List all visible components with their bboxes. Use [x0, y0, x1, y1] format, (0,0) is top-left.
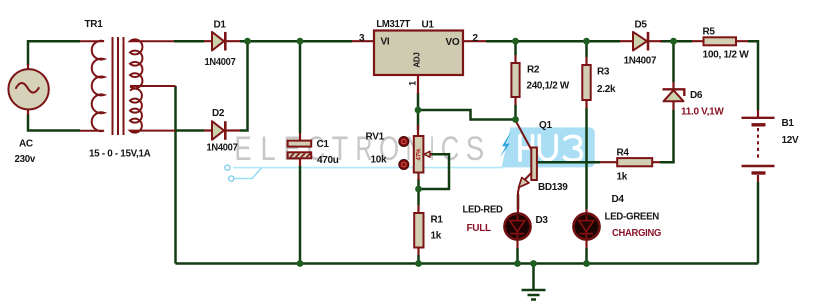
svg-text:D5: D5: [635, 20, 648, 31]
svg-text:LED-GREEN: LED-GREEN: [605, 212, 660, 223]
wire R5 to battery positive: [748, 41, 758, 110]
svg-text:R2: R2: [527, 65, 540, 76]
bottom rail wire: [176, 262, 759, 265]
svg-text:L: L: [260, 130, 275, 168]
wire LM317 ADJ to RV1: [417, 93, 420, 130]
base bar: [531, 148, 537, 181]
capacitor C1: [288, 133, 339, 166]
svg-text:FULL: FULL: [467, 223, 492, 234]
adjust button down: [399, 160, 409, 170]
wire D2 cathode up to top rail junction: [240, 41, 248, 130]
junction RV1 wiper bottom: [415, 186, 422, 193]
emitter arrow: [519, 178, 529, 188]
secondary upper winding: [130, 39, 174, 88]
wire TR1 secondary bottom to D2 anode: [176, 129, 205, 132]
svg-text:2: 2: [473, 33, 479, 44]
resistor R3: [582, 57, 616, 108]
junction R2 bottom Q1 collector: [512, 116, 519, 123]
junction ADJ node: [415, 107, 422, 114]
wire D5 cathode to R5: [660, 40, 692, 43]
wire TR1 secondary top to D1 anode: [174, 40, 204, 43]
svg-text:240,1/2 W: 240,1/2 W: [527, 81, 570, 92]
svg-text:I: I: [429, 130, 434, 168]
wire R3 to D4: [585, 108, 588, 209]
svg-text:470u: 470u: [317, 155, 339, 166]
svg-text:D2: D2: [212, 108, 225, 119]
junction R2 top rail: [512, 38, 519, 45]
svg-text:1: 1: [408, 81, 418, 86]
svg-text:LED-RED: LED-RED: [463, 205, 503, 216]
junction D3 bottom rail: [514, 260, 521, 267]
AC source V1: [8, 64, 48, 165]
junction D6 top rail: [670, 38, 677, 45]
svg-text:12V: 12V: [782, 135, 800, 146]
resistor R1: [414, 205, 443, 255]
junction D4 bottom rail: [583, 260, 590, 267]
diode D5: [620, 20, 662, 67]
svg-text:ADJ: ADJ: [413, 52, 422, 67]
svg-text:D3: D3: [536, 215, 549, 226]
svg-text:230v: 230v: [15, 154, 36, 165]
junction C1 bottom rail: [297, 260, 304, 267]
svg-text:D6: D6: [690, 90, 703, 101]
svg-text:1k: 1k: [431, 231, 442, 242]
svg-text:C1: C1: [317, 139, 330, 150]
transformer TR1: [80, 19, 176, 160]
resistor R5: [692, 27, 749, 61]
wire C1 to bottom rail: [299, 166, 302, 264]
resistor R2: [511, 55, 569, 105]
svg-text:CHARGING: CHARGING: [612, 228, 661, 239]
svg-text:1N4007: 1N4007: [207, 143, 239, 154]
svg-text:TR1: TR1: [85, 19, 104, 30]
svg-text:Q1: Q1: [539, 120, 552, 131]
svg-text:VO: VO: [446, 37, 460, 48]
svg-text:D4: D4: [612, 194, 625, 205]
resistor R4: [600, 148, 660, 183]
svg-text:LM317T: LM317T: [376, 19, 410, 30]
svg-text:1k: 1k: [617, 172, 628, 183]
svg-text:U1: U1: [422, 20, 435, 31]
svg-text:10k: 10k: [371, 155, 388, 166]
wire D4 to bottom rail: [585, 248, 588, 264]
zener diode D6: [663, 82, 725, 118]
svg-text:2.2k: 2.2k: [597, 84, 616, 95]
junction D1 cathode top rail: [244, 38, 251, 45]
wire R4 to D6 anode: [660, 110, 674, 162]
svg-text:47%: 47%: [417, 148, 423, 161]
ground: [522, 264, 546, 300]
svg-text:100, 1/2 W: 100, 1/2 W: [703, 50, 750, 61]
svg-text:3: 3: [359, 33, 365, 44]
wire RV1 wiper loop: [419, 154, 449, 189]
wire AC source to TR1 primary top: [28, 41, 80, 65]
collector lead: [516, 121, 532, 151]
svg-text:1N4007: 1N4007: [205, 57, 237, 68]
diode D1: [204, 20, 240, 69]
svg-text:VI: VI: [381, 37, 390, 48]
junction C1 top rail: [297, 38, 304, 45]
wire RV1 to R1: [417, 179, 420, 205]
wire ADJ junction to Q1 collector junction: [418, 110, 516, 120]
wire R1 to bottom rail: [417, 255, 420, 264]
adjust button up: [399, 137, 409, 147]
svg-text:D1: D1: [214, 20, 227, 31]
regulator U1 LM317T: [352, 19, 486, 94]
wire D1 cathode to LM317 input: [240, 40, 352, 43]
wire D6 cathode to top rail junction: [672, 41, 675, 82]
svg-text:R1: R1: [431, 215, 444, 226]
wire top rail to R3: [585, 41, 588, 57]
svg-text:RV1: RV1: [366, 132, 385, 143]
svg-text:R5: R5: [703, 27, 716, 38]
emitter lead: [518, 173, 532, 197]
svg-text:15 - 0 - 15V,1A: 15 - 0 - 15V,1A: [89, 149, 151, 160]
potentiometer RV1: [366, 125, 433, 180]
svg-text:S: S: [466, 130, 484, 168]
wire AC source to TR1 primary bottom: [28, 114, 80, 131]
wire D3 to bottom rail: [516, 248, 519, 264]
junction R3 top rail: [583, 38, 590, 45]
wire battery negative to bottom rail: [757, 182, 760, 264]
svg-text:1N4007: 1N4007: [624, 56, 657, 67]
wiper arrow: [425, 153, 432, 155]
wire Q1 base to R4: [537, 161, 600, 164]
secondary lower winding: [130, 89, 176, 133]
diode D2: [204, 108, 240, 154]
wire R2 bottom to junction: [514, 105, 517, 120]
primary winding: [80, 41, 104, 131]
wire top rail to R2: [514, 41, 517, 55]
LED D3: [463, 196, 549, 248]
svg-text:R4: R4: [617, 148, 630, 159]
ElectronicsHub watermark: [225, 127, 595, 181]
wire top rail to C1: [299, 41, 302, 133]
battery B1: [742, 110, 800, 182]
svg-text:BD139: BD139: [538, 182, 568, 193]
junction R1 bottom rail: [415, 260, 422, 267]
junction ground bottom rail: [530, 260, 537, 267]
wire TR1 center tap down to bottom rail: [174, 86, 177, 264]
LED D4: [574, 194, 662, 248]
center tap pin: [130, 85, 176, 87]
svg-text:B1: B1: [782, 118, 795, 129]
svg-text:AC: AC: [19, 139, 33, 150]
svg-text:E: E: [284, 130, 301, 168]
wire Q1 emitter to D3: [517, 194, 520, 209]
core: [113, 37, 124, 135]
svg-text:11.0 V,1W: 11.0 V,1W: [681, 107, 724, 118]
transistor Q1: [516, 120, 569, 196]
wire LM317 output rail to D5: [486, 40, 620, 43]
svg-text:R3: R3: [597, 67, 610, 78]
